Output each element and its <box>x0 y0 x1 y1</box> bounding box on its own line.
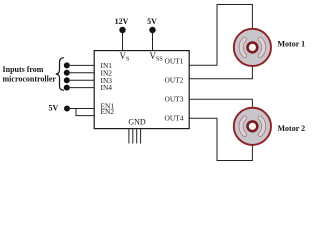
svg-text:OUT4: OUT4 <box>165 114 184 123</box>
wire OUT1 to Motor1 top <box>189 5 252 66</box>
wire IN3 <box>67 79 94 81</box>
svg-text:5V: 5V <box>49 104 59 113</box>
GND pin 1 <box>128 129 130 144</box>
svg-text:Inputs from: Inputs from <box>3 65 44 74</box>
svg-text:GND: GND <box>128 118 146 127</box>
wire 5V to EN1 <box>67 108 94 110</box>
GND pin 3 <box>136 129 138 144</box>
svg-text:OUT1: OUT1 <box>165 57 184 66</box>
svg-text:microcontroller: microcontroller <box>3 74 57 83</box>
wire IN2 <box>67 72 94 74</box>
svg-text:OUT2: OUT2 <box>165 75 184 84</box>
svg-text:Motor 2: Motor 2 <box>278 124 306 133</box>
motor M2 <box>234 108 271 145</box>
node: IN4 input dot <box>64 85 70 91</box>
wire 5V to Vss pin <box>152 30 154 51</box>
wire OUT2 to Motor1 bottom <box>189 67 252 79</box>
svg-text:5V: 5V <box>147 17 157 26</box>
wire IN4 <box>67 87 94 89</box>
wire OUT4 to Motor2 bottom <box>189 118 252 160</box>
wire 12V to Vs pin <box>122 30 124 51</box>
node: 5V supply dot <box>149 27 155 33</box>
wire IN1 <box>67 64 94 66</box>
svg-text:IN4: IN4 <box>101 83 113 92</box>
brace grouping input dots <box>56 58 64 90</box>
svg-text:OUT3: OUT3 <box>165 95 184 104</box>
wire branch to EN2 <box>76 109 94 116</box>
svg-text:Motor 1: Motor 1 <box>278 39 306 48</box>
motor M1 <box>234 29 271 66</box>
IC box U1 (motor driver) <box>94 51 189 129</box>
svg-text:12V: 12V <box>115 17 129 26</box>
wire OUT3 to Motor2 top <box>189 99 252 107</box>
node: 12V supply dot <box>119 27 125 33</box>
node: IN2 input dot <box>64 70 70 76</box>
node: IN1 input dot <box>64 62 70 68</box>
GND pin 2 <box>132 129 134 144</box>
node: 5V enable dot <box>64 106 70 112</box>
GND pin 4 <box>140 129 142 144</box>
node: IN3 input dot <box>64 77 70 83</box>
svg-text:EN2: EN2 <box>101 107 115 116</box>
